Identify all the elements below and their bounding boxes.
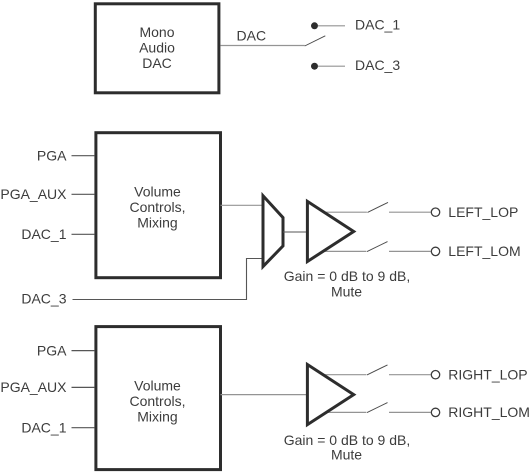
wire DAC net bbox=[220, 45, 304, 47]
node DAC_3 contact dot bbox=[311, 63, 318, 70]
svg-text:DAC_1: DAC_1 bbox=[355, 17, 400, 33]
op-amp left line driver bbox=[307, 201, 353, 261]
svg-text:DAC: DAC bbox=[237, 28, 267, 44]
wire DAC_1 stub (right) bbox=[72, 427, 95, 429]
svg-text:Controls,: Controls, bbox=[129, 199, 185, 215]
wire PGA_AUX stub (right) bbox=[72, 386, 95, 388]
svg-text:Mixing: Mixing bbox=[137, 408, 177, 424]
wire PGA stub (right) bbox=[72, 350, 95, 352]
terminal RIGHT_LOP bbox=[431, 371, 439, 379]
switch LEFT_LOP lever bbox=[368, 202, 389, 212]
wire to DAC_1 bbox=[318, 25, 345, 27]
svg-text:Mute: Mute bbox=[331, 283, 362, 299]
wire RIGHT_LOM to terminal bbox=[389, 411, 431, 413]
svg-text:DAC: DAC bbox=[142, 55, 172, 71]
block Mono Audio DAC bbox=[95, 4, 219, 93]
switch RIGHT_LOP lever bbox=[367, 365, 388, 375]
svg-text:PGA_AUX: PGA_AUX bbox=[0, 379, 67, 395]
wire PGA stub (left) bbox=[72, 155, 95, 157]
svg-text:LEFT_LOP: LEFT_LOP bbox=[448, 204, 518, 220]
terminal LEFT_LOP bbox=[431, 208, 439, 216]
wire to DAC_3 bbox=[318, 65, 345, 67]
terminal LEFT_LOM bbox=[431, 247, 439, 255]
switch SW-DAC lever bbox=[305, 36, 326, 46]
wire amp to RIGHT_LOP switch bbox=[323, 374, 366, 376]
svg-text:PGA_AUX: PGA_AUX bbox=[0, 186, 67, 202]
svg-text:DAC_3: DAC_3 bbox=[355, 57, 400, 73]
wire Volume box to mux bbox=[221, 204, 264, 206]
svg-text:Audio: Audio bbox=[139, 40, 175, 56]
mux left channel bbox=[263, 196, 283, 267]
terminal RIGHT_LOM bbox=[431, 408, 439, 416]
switch RIGHT_LOM lever bbox=[367, 403, 388, 413]
switch LEFT_LOM lever bbox=[367, 242, 388, 252]
svg-text:PGA: PGA bbox=[37, 148, 67, 164]
svg-text:Volume: Volume bbox=[134, 377, 181, 393]
svg-text:RIGHT_LOP: RIGHT_LOP bbox=[448, 366, 527, 382]
svg-text:Mono: Mono bbox=[139, 24, 174, 40]
wire amp to RIGHT_LOM switch (from hypotenuse) bbox=[325, 411, 366, 413]
svg-text:LEFT_LOM: LEFT_LOM bbox=[448, 243, 520, 259]
wire PGA_AUX stub (left) bbox=[72, 193, 95, 195]
svg-text:Volume: Volume bbox=[134, 184, 181, 200]
wire amp to LEFT_LOM switch (from hypotenuse) bbox=[323, 250, 367, 252]
node DAC_1 contact dot bbox=[311, 22, 318, 29]
wire mux to amp bbox=[283, 231, 308, 233]
svg-text:Gain = 0 dB to 9 dB,: Gain = 0 dB to 9 dB, bbox=[284, 268, 410, 284]
wire Volume box to right amp bbox=[221, 394, 309, 396]
svg-text:Mute: Mute bbox=[331, 446, 362, 462]
svg-text:Mixing: Mixing bbox=[137, 215, 177, 231]
svg-text:Controls,: Controls, bbox=[129, 393, 185, 409]
svg-text:DAC_3: DAC_3 bbox=[21, 290, 66, 306]
svg-text:DAC_1: DAC_1 bbox=[21, 226, 66, 242]
wire RIGHT_LOP to terminal bbox=[389, 374, 431, 376]
wire amp to LEFT_LOP switch bbox=[324, 211, 367, 213]
block Volume Controls Mixing (right) bbox=[96, 327, 221, 470]
wire LEFT_LOM to terminal bbox=[389, 250, 431, 252]
wire LEFT_LOP to terminal bbox=[389, 211, 431, 213]
wire DAC_1 stub (left) bbox=[72, 233, 95, 235]
svg-text:PGA: PGA bbox=[37, 342, 67, 358]
op-amp right line driver bbox=[307, 365, 353, 425]
wire DAC_3 to mux bbox=[73, 259, 264, 300]
block Volume Controls Mixing (left) bbox=[96, 133, 221, 278]
svg-text:DAC_1: DAC_1 bbox=[21, 420, 66, 436]
svg-text:RIGHT_LOM: RIGHT_LOM bbox=[448, 404, 529, 420]
